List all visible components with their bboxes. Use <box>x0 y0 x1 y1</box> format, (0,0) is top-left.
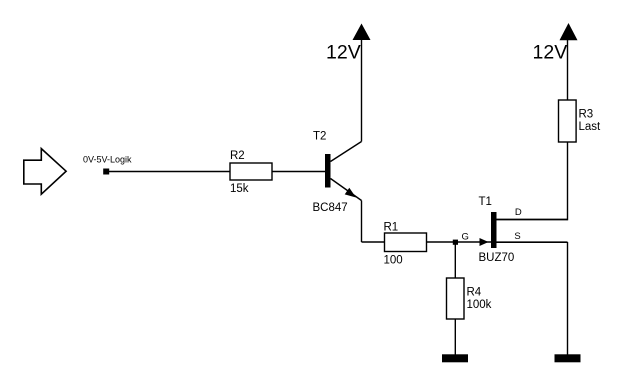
wire gate node down to R4 <box>454 242 456 278</box>
wire collector to 12V <box>361 40 363 142</box>
svg-text:BUZ70: BUZ70 <box>479 252 515 264</box>
wire input to R2 <box>106 171 230 173</box>
T2 emitter arrowhead <box>345 188 356 198</box>
gate arrowhead <box>480 238 489 246</box>
transistor T2 base bar <box>325 154 331 188</box>
resistor R1 <box>385 233 427 252</box>
svg-text:Last: Last <box>579 121 602 133</box>
wire R2 to T2 base <box>272 171 325 173</box>
svg-text:R1: R1 <box>384 222 399 234</box>
svg-text:R2: R2 <box>230 150 245 162</box>
input block arrow <box>24 149 66 195</box>
svg-text:BC847: BC847 <box>313 202 348 214</box>
node dot G <box>453 240 458 245</box>
svg-text:G: G <box>462 232 469 243</box>
resistor R2 <box>230 163 272 180</box>
transistor T1 bar <box>491 212 497 248</box>
T2 emitter diagonal <box>331 179 362 201</box>
wire emitter down <box>361 201 363 243</box>
svg-text:0V-5V-Logik: 0V-5V-Logik <box>83 155 132 165</box>
supply 12V left triangle <box>353 24 371 41</box>
svg-text:100: 100 <box>384 255 403 267</box>
wire source down to ground <box>567 242 569 355</box>
wire emitter to R1 <box>362 241 385 243</box>
svg-text:T2: T2 <box>313 131 326 143</box>
svg-text:15k: 15k <box>230 183 249 195</box>
wire drain up to R3 <box>567 142 569 220</box>
svg-text:100k: 100k <box>467 299 492 311</box>
node dot input <box>103 169 109 175</box>
resistor R4 <box>447 278 465 319</box>
T1 drain wire <box>497 219 568 221</box>
svg-text:12V: 12V <box>326 42 361 64</box>
supply 12V right triangle <box>560 23 578 40</box>
T1 source wire <box>497 241 568 243</box>
resistor R3 <box>559 100 577 142</box>
wire R1 to gate <box>427 241 492 243</box>
svg-text:T1: T1 <box>479 196 492 208</box>
svg-text:12V: 12V <box>533 42 568 64</box>
wire R3 to 12V <box>567 40 569 100</box>
ground left <box>442 354 468 362</box>
svg-text:S: S <box>514 231 520 242</box>
svg-text:R3: R3 <box>579 109 594 121</box>
T2 collector diagonal <box>331 142 362 162</box>
ground right <box>555 354 581 362</box>
svg-text:R4: R4 <box>467 287 482 299</box>
wire R4 to ground <box>454 319 456 355</box>
svg-text:D: D <box>515 207 522 218</box>
